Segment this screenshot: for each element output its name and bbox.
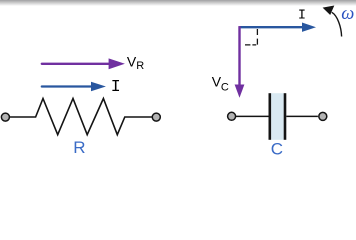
capacitor C <box>269 93 287 140</box>
current arrow I (capacitor branch) <box>240 23 317 32</box>
90-degree phase marker vertical dashed segment <box>256 29 258 46</box>
wire left of C <box>236 115 269 117</box>
label VC <box>212 74 229 94</box>
svg-text:C: C <box>271 140 283 159</box>
voltage arrow VR <box>42 58 125 69</box>
svg-text:ω: ω <box>341 4 354 24</box>
terminal node right of R <box>152 113 160 121</box>
svg-text:C: C <box>221 82 229 94</box>
wire left of R, resistor R zigzag, wire right of R <box>10 99 152 135</box>
voltage arrow VC <box>235 26 245 98</box>
svg-text:I: I <box>111 77 121 96</box>
current arrow I (resistor branch) <box>42 82 106 91</box>
terminal node left of C <box>228 112 236 120</box>
label VR <box>127 53 144 72</box>
rotation arrow omega <box>323 6 342 37</box>
wire right of C <box>286 115 318 117</box>
svg-text:R: R <box>136 60 144 72</box>
90-degree phase marker horizontal dashed segment <box>245 44 256 46</box>
svg-text:I: I <box>298 8 306 23</box>
terminal node right of C <box>319 112 327 120</box>
svg-text:R: R <box>73 138 85 157</box>
terminal node left of R <box>1 113 9 121</box>
